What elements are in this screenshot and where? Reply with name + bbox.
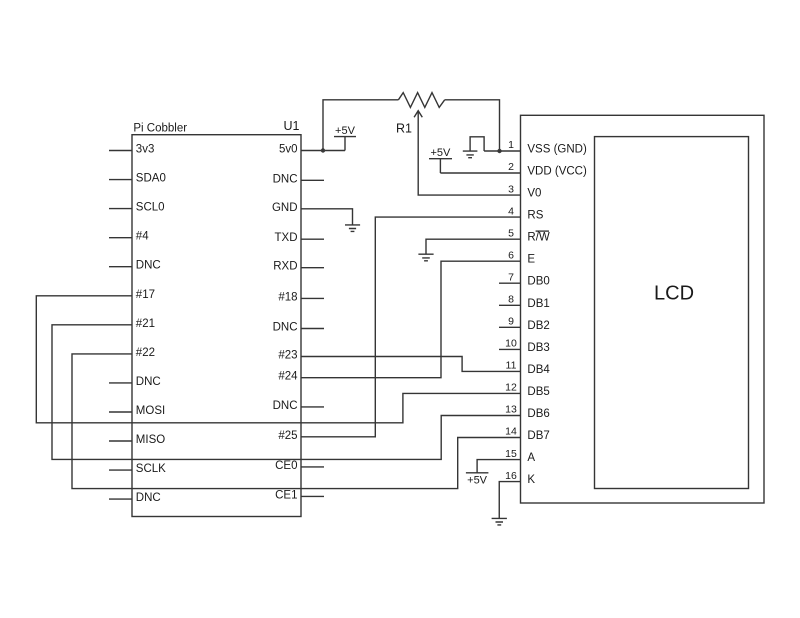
svg-text:7: 7 — [508, 271, 514, 283]
junction dot at VSS — [497, 149, 501, 153]
pin DNC right2 — [273, 173, 324, 185]
wire R/W pin 5 to ground — [426, 239, 521, 254]
wire E pin 6 to U1 #24 — [301, 261, 521, 378]
resistor R1 (potentiometer body) — [398, 93, 444, 108]
svg-text:+5V: +5V — [430, 147, 451, 159]
ground near R/W — [418, 254, 433, 261]
pin 5v0 — [279, 144, 298, 156]
svg-text:CE0: CE0 — [275, 460, 297, 472]
svg-text:DB1: DB1 — [527, 298, 549, 310]
svg-text:Pi Cobbler: Pi Cobbler — [133, 123, 187, 135]
pin TXD — [275, 232, 325, 244]
svg-text:+5V: +5V — [335, 125, 356, 137]
svg-text:5v0: 5v0 — [279, 144, 298, 156]
power +5V near VDD — [429, 147, 452, 173]
svg-text:U1: U1 — [284, 119, 300, 133]
LCD inner box — [595, 137, 749, 489]
wire K pin 16 to ground — [499, 482, 520, 519]
svg-text:DB5: DB5 — [527, 386, 549, 398]
svg-text:#18: #18 — [278, 291, 297, 303]
svg-text:E: E — [527, 254, 535, 266]
pin SCLK — [109, 463, 166, 475]
wire DB4 pin 11 to U1 #23 — [301, 357, 521, 372]
svg-text:15: 15 — [505, 448, 517, 460]
svg-text:R1: R1 — [396, 122, 412, 136]
ground near VSS (step over) — [463, 137, 484, 158]
stub DB0 pin 7 — [499, 282, 521, 284]
svg-text:VSS (GND): VSS (GND) — [527, 144, 587, 156]
svg-text:V0: V0 — [527, 188, 541, 200]
pin DNC right7 — [273, 322, 324, 334]
power +5V near 5v0 — [334, 125, 356, 151]
pin #17 — [136, 289, 155, 301]
pin MOSI — [109, 405, 165, 417]
pin DNC right10 — [273, 400, 324, 412]
IC U1 Pi Cobbler box — [132, 135, 301, 517]
svg-text:MISO: MISO — [136, 434, 165, 446]
svg-text:DNC: DNC — [136, 492, 161, 504]
wire DB6 pin 13 to U1 #21 — [52, 325, 521, 460]
stub DB1 pin 8 — [499, 304, 521, 306]
svg-text:4: 4 — [508, 205, 514, 217]
svg-text:R/W: R/W — [527, 232, 550, 244]
svg-text:10: 10 — [505, 338, 517, 350]
pin #23 — [278, 350, 297, 362]
pin #25 — [278, 430, 297, 442]
svg-text:2: 2 — [508, 161, 514, 173]
svg-text:12: 12 — [505, 382, 517, 394]
svg-text:DB0: DB0 — [527, 276, 549, 288]
svg-text:TXD: TXD — [275, 232, 298, 244]
wire A pin 15 to +5V — [477, 460, 520, 473]
svg-text:LCD: LCD — [654, 283, 694, 305]
pin #4 — [109, 231, 149, 243]
svg-text:13: 13 — [505, 404, 517, 416]
pin #21 — [136, 318, 155, 330]
pin SDA0 — [109, 173, 166, 185]
svg-text:#4: #4 — [136, 231, 149, 243]
svg-text:DNC: DNC — [136, 260, 161, 272]
svg-text:DNC: DNC — [136, 376, 161, 388]
wire junction up and over to R1 left lead — [323, 100, 398, 151]
svg-text:DB6: DB6 — [527, 408, 549, 420]
svg-text:3v3: 3v3 — [136, 144, 155, 156]
LCD outer box — [521, 115, 765, 503]
pin 3v3 — [109, 144, 154, 156]
svg-text:SDA0: SDA0 — [136, 173, 166, 185]
pin RXD — [273, 261, 324, 273]
svg-text:6: 6 — [508, 249, 514, 261]
pin GND — [272, 202, 298, 214]
R1 wiper arrow to V0 wire — [414, 111, 520, 195]
wire GND pin to ground — [301, 209, 353, 225]
pin #18 — [278, 291, 324, 303]
svg-text:K: K — [527, 474, 535, 486]
svg-text:1: 1 — [508, 139, 514, 151]
wire +5V to VDD pin 2 — [440, 172, 520, 174]
svg-text:RS: RS — [527, 210, 543, 222]
wire RS pin 4 to U1 #25 — [301, 217, 521, 437]
wire DB7 pin 14 to U1 #22 — [72, 354, 521, 489]
ground near K — [492, 518, 507, 525]
svg-text:SCLK: SCLK — [136, 463, 166, 475]
svg-text:DNC: DNC — [273, 173, 298, 185]
wire R1 right lead down to VSS — [445, 100, 500, 151]
pin MISO — [109, 434, 165, 446]
svg-text:3: 3 — [508, 183, 514, 195]
svg-text:A: A — [527, 452, 535, 464]
svg-text:#17: #17 — [136, 289, 155, 301]
svg-text:DNC: DNC — [273, 400, 298, 412]
svg-text:SCL0: SCL0 — [136, 202, 165, 214]
pin DNC left13 — [109, 492, 161, 504]
svg-text:DB2: DB2 — [527, 320, 549, 332]
svg-text:RXD: RXD — [273, 261, 297, 273]
svg-text:MOSI: MOSI — [136, 405, 165, 417]
svg-text:#24: #24 — [278, 371, 298, 383]
svg-text:14: 14 — [505, 426, 517, 438]
junction dot at 5v0 — [321, 148, 325, 152]
svg-text:+5V: +5V — [467, 474, 488, 486]
svg-text:11: 11 — [506, 360, 517, 372]
wire 5v0 pin to +5V stub — [301, 150, 345, 152]
svg-text:5: 5 — [508, 227, 514, 239]
svg-text:DNC: DNC — [273, 322, 298, 334]
svg-text:#25: #25 — [278, 430, 297, 442]
pin SCL0 — [109, 202, 165, 214]
wire DB5 pin 12 to U1 #17 — [36, 296, 520, 423]
power +5V near A (inverted) — [466, 473, 489, 487]
stub DB3 pin 10 — [499, 348, 521, 350]
pin DNC left5 — [109, 260, 161, 272]
pin DNC left9 — [109, 376, 161, 388]
pin CE1 — [275, 489, 324, 501]
svg-text:VDD (VCC): VDD (VCC) — [527, 166, 587, 178]
svg-text:8: 8 — [508, 294, 514, 306]
pin #22 — [136, 347, 155, 359]
svg-text:16: 16 — [505, 470, 517, 482]
pin label R/W with overline — [527, 231, 550, 244]
pin CE0 — [275, 460, 324, 472]
ground near U1 GND — [345, 225, 360, 232]
svg-text:GND: GND — [272, 202, 298, 214]
svg-text:DB4: DB4 — [527, 364, 550, 376]
svg-text:#23: #23 — [278, 350, 297, 362]
svg-text:#22: #22 — [136, 347, 155, 359]
stub DB2 pin 9 — [499, 326, 521, 328]
svg-text:DB3: DB3 — [527, 342, 549, 354]
pin #24 — [278, 371, 298, 383]
svg-text:CE1: CE1 — [275, 489, 297, 501]
svg-text:#21: #21 — [136, 318, 155, 330]
svg-text:9: 9 — [508, 316, 514, 328]
svg-text:DB7: DB7 — [527, 430, 549, 442]
wire VSS pin 1 — [484, 150, 520, 152]
